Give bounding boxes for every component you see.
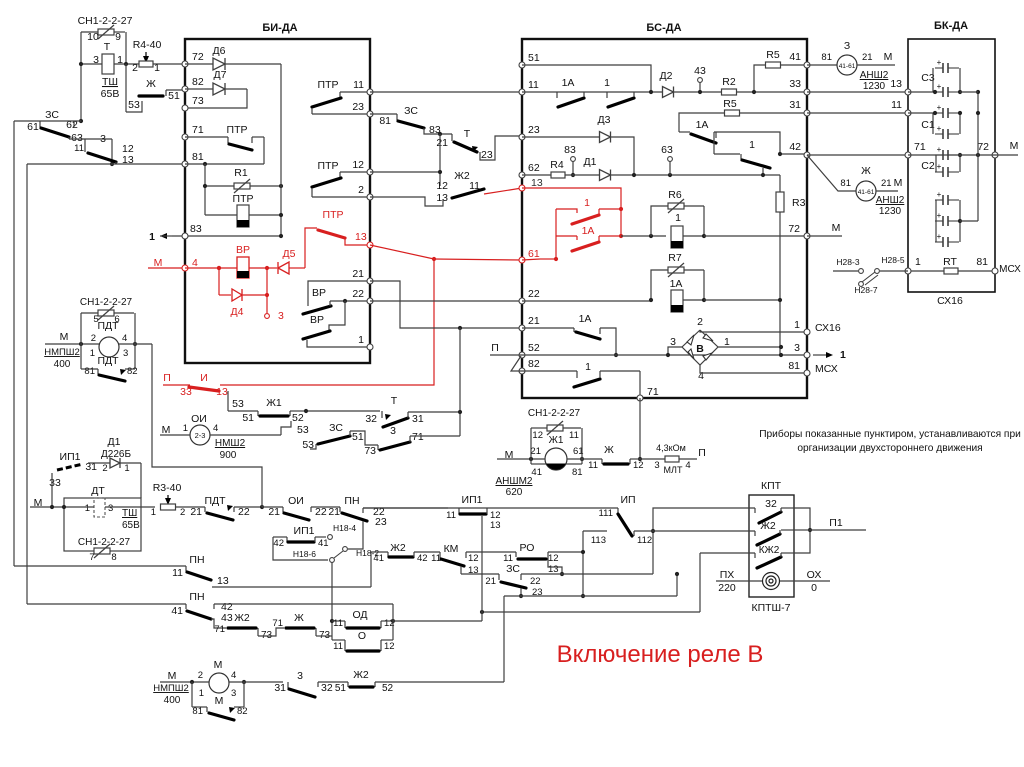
svg-text:12: 12 bbox=[532, 430, 543, 441]
terminal 2 bbox=[367, 194, 373, 200]
wire coil1 right rail bbox=[703, 206, 705, 236]
svg-text:М: М bbox=[214, 659, 223, 671]
svg-text:П: П bbox=[491, 342, 499, 354]
wire far-left vertical x15 bbox=[13, 121, 15, 566]
svg-text:51: 51 bbox=[242, 412, 254, 424]
lamp symbol KPTSh bbox=[763, 573, 780, 590]
svg-text:ИП1: ИП1 bbox=[294, 525, 315, 537]
arrow 1 right of 3 bbox=[813, 354, 826, 356]
svg-text:2: 2 bbox=[180, 507, 185, 518]
svg-text:П1: П1 bbox=[829, 517, 843, 529]
svg-text:М: М bbox=[215, 695, 224, 707]
wire 33 drop bbox=[51, 473, 53, 507]
svg-text:R3-40: R3-40 bbox=[153, 482, 182, 494]
svg-text:71: 71 bbox=[192, 124, 204, 136]
svg-text:82: 82 bbox=[192, 76, 204, 88]
svg-text:43: 43 bbox=[221, 612, 233, 624]
terminal 82 bbox=[182, 86, 188, 92]
svg-text:М: М bbox=[162, 424, 171, 436]
wire ZS 61 feed bbox=[14, 120, 81, 122]
svg-text:41: 41 bbox=[789, 51, 801, 63]
svg-text:62: 62 bbox=[528, 162, 540, 174]
terminal 41 bbox=[804, 62, 810, 68]
svg-text:1: 1 bbox=[794, 319, 800, 331]
wire 72 row right bbox=[704, 235, 807, 237]
svg-text:+: + bbox=[937, 232, 942, 241]
terminal 83 bbox=[182, 233, 188, 239]
svg-text:111: 111 bbox=[599, 508, 613, 519]
terminal 31 bbox=[804, 110, 810, 116]
svg-text:БИ-ДА: БИ-ДА bbox=[262, 22, 297, 34]
wire y612 KZh2 feed bbox=[393, 620, 482, 622]
node 63 stub bbox=[668, 157, 673, 162]
terminal 42 bbox=[804, 152, 810, 158]
wire IP1-42 drop bbox=[273, 537, 328, 560]
wire coil right rail bbox=[280, 64, 282, 236]
block BS-DA outline bbox=[522, 39, 807, 398]
svg-text:1: 1 bbox=[749, 139, 755, 151]
wire red junction down and left bbox=[220, 259, 434, 385]
terminal 33 bbox=[804, 89, 810, 95]
svg-text:1: 1 bbox=[675, 212, 681, 224]
arrow 1 left at 83 bbox=[160, 233, 167, 239]
wire 42 row bbox=[780, 153, 807, 155]
svg-text:Ж2: Ж2 bbox=[234, 612, 250, 624]
svg-text:2: 2 bbox=[358, 184, 364, 196]
svg-text:53: 53 bbox=[128, 99, 140, 111]
wire coil1A right rail bbox=[703, 270, 705, 300]
svg-text:организации двухстороннего дви: организации двухстороннего движения bbox=[797, 443, 982, 454]
svg-text:Д7: Д7 bbox=[214, 69, 227, 81]
svg-text:М: М bbox=[168, 670, 177, 682]
wire 81 row inside bbox=[185, 163, 264, 165]
svg-text:RT: RT bbox=[943, 256, 957, 268]
wire D1 drop to box bbox=[140, 463, 142, 498]
terminal 11 bk bbox=[905, 110, 911, 116]
wire Zh to x331 bbox=[316, 635, 332, 637]
wire 52 to riser bbox=[375, 681, 504, 683]
wire red 13 row inside bbox=[522, 188, 621, 236]
wire M row bottom bbox=[229, 681, 283, 683]
terminal 1 rt bbox=[905, 268, 911, 274]
svg-text:82: 82 bbox=[237, 706, 248, 717]
wire 71-72 row bbox=[908, 154, 995, 156]
svg-text:АНШ2: АНШ2 bbox=[876, 195, 905, 206]
svg-text:52: 52 bbox=[528, 342, 540, 354]
svg-text:73: 73 bbox=[192, 95, 204, 107]
svg-text:М: М bbox=[894, 177, 903, 189]
svg-text:1: 1 bbox=[604, 77, 610, 89]
svg-text:ВР: ВР bbox=[310, 314, 324, 326]
terminal 23 bbox=[367, 111, 373, 117]
svg-text:ПДТ: ПДТ bbox=[97, 320, 119, 332]
svg-text:4: 4 bbox=[231, 670, 236, 681]
wire red up to PTR contact bbox=[304, 240, 306, 268]
svg-text:Д5: Д5 bbox=[283, 248, 296, 260]
svg-text:Ж: Ж bbox=[294, 612, 304, 624]
wire far-left vertical x27 bbox=[26, 164, 28, 604]
svg-text:+: + bbox=[937, 124, 942, 133]
svg-text:ПТР: ПТР bbox=[318, 160, 339, 172]
svg-text:81: 81 bbox=[192, 706, 203, 717]
svg-text:51: 51 bbox=[352, 431, 364, 443]
svg-text:2: 2 bbox=[697, 316, 703, 328]
svg-text:61: 61 bbox=[528, 248, 540, 260]
svg-text:Н28-7: Н28-7 bbox=[854, 285, 877, 295]
wire 113 stub bbox=[583, 530, 607, 532]
wire 22 row to KPT riser bbox=[521, 573, 653, 575]
wire 72 to M bbox=[995, 154, 1018, 156]
svg-text:ИП1: ИП1 bbox=[462, 494, 483, 506]
svg-text:СХ16: СХ16 bbox=[815, 322, 841, 334]
svg-text:23: 23 bbox=[528, 124, 540, 136]
terminal 1 bbox=[367, 344, 373, 350]
wire 63 to 3 drop bbox=[111, 139, 113, 164]
svg-text:11: 11 bbox=[588, 460, 598, 471]
wire OD rail x393 bbox=[392, 604, 394, 640]
wire bridge top to CX16 bbox=[700, 330, 807, 332]
wire 81 row horizontal bbox=[27, 163, 185, 165]
svg-text:1А: 1А bbox=[562, 77, 575, 89]
svg-text:R5: R5 bbox=[766, 49, 780, 61]
svg-text:42: 42 bbox=[273, 538, 284, 549]
svg-text:82: 82 bbox=[127, 366, 138, 377]
svg-text:71: 71 bbox=[214, 624, 225, 635]
wire PN23 to H18-2 bbox=[348, 521, 363, 549]
relay NMPSh2 400 coil bbox=[99, 337, 119, 357]
svg-text:11: 11 bbox=[333, 618, 343, 629]
svg-text:Н28-5: Н28-5 bbox=[881, 255, 904, 265]
svg-text:НМПШ2: НМПШ2 bbox=[44, 347, 80, 358]
terminal 3 row bbox=[804, 352, 810, 358]
svg-text:ВР: ВР bbox=[312, 287, 326, 299]
terminal 22 bbox=[367, 298, 373, 304]
svg-text:65В: 65В bbox=[122, 520, 140, 531]
svg-text:Ж: Ж bbox=[604, 444, 614, 456]
wire KM13 row bbox=[461, 573, 499, 575]
svg-text:М: М bbox=[884, 51, 893, 63]
contact 11-12-13 below ZS bbox=[84, 139, 86, 152]
svg-text:11: 11 bbox=[74, 143, 84, 154]
svg-text:О: О bbox=[358, 630, 366, 642]
svg-text:13: 13 bbox=[490, 520, 501, 531]
svg-text:4: 4 bbox=[122, 333, 127, 344]
svg-text:ПН: ПН bbox=[344, 495, 359, 507]
wire Zh2 row to KPT bbox=[653, 530, 755, 532]
svg-text:R6: R6 bbox=[668, 189, 682, 201]
svg-text:R7: R7 bbox=[668, 252, 682, 264]
wire 42 to BK-DA 71 bbox=[807, 154, 908, 156]
svg-text:41: 41 bbox=[531, 467, 542, 478]
svg-text:4: 4 bbox=[685, 460, 690, 471]
svg-text:+: + bbox=[937, 82, 942, 91]
svg-text:П: П bbox=[698, 447, 706, 459]
svg-text:4: 4 bbox=[192, 257, 198, 269]
terminal 23 bs bbox=[519, 134, 525, 140]
terminal 13 red bbox=[367, 242, 373, 248]
svg-text:+: + bbox=[937, 190, 942, 199]
svg-text:22: 22 bbox=[528, 288, 540, 300]
svg-text:Ж2: Ж2 bbox=[454, 170, 470, 182]
svg-text:51: 51 bbox=[335, 683, 347, 694]
svg-text:72: 72 bbox=[192, 51, 204, 63]
terminal 61 red bbox=[519, 257, 525, 263]
svg-text:73: 73 bbox=[364, 445, 376, 457]
svg-text:ЗС: ЗС bbox=[329, 422, 343, 434]
svg-text:63: 63 bbox=[661, 144, 673, 156]
svg-text:1: 1 bbox=[149, 231, 155, 243]
svg-text:11: 11 bbox=[528, 79, 539, 91]
svg-text:21: 21 bbox=[528, 315, 540, 327]
svg-text:8: 8 bbox=[111, 552, 116, 563]
wire red rail to 61 bbox=[540, 258, 556, 260]
svg-text:ПТР: ПТР bbox=[227, 124, 248, 136]
svg-text:Ж1: Ж1 bbox=[549, 435, 564, 446]
svg-text:220: 220 bbox=[718, 582, 736, 594]
svg-text:АНШМ2: АНШМ2 bbox=[496, 476, 533, 487]
svg-text:R1: R1 bbox=[234, 167, 248, 179]
svg-text:1: 1 bbox=[840, 349, 846, 361]
svg-text:81: 81 bbox=[84, 366, 95, 377]
wire P jumper to 82 bbox=[511, 356, 522, 371]
terminal 72 bs bbox=[804, 233, 810, 239]
svg-text:ОД: ОД bbox=[352, 609, 367, 621]
terminal 71 bottom bbox=[637, 395, 643, 401]
svg-text:1: 1 bbox=[85, 503, 90, 514]
svg-text:900: 900 bbox=[220, 450, 237, 461]
svg-text:3: 3 bbox=[231, 688, 236, 699]
svg-text:R4: R4 bbox=[550, 159, 564, 171]
svg-text:12: 12 bbox=[436, 180, 448, 192]
svg-text:ПТР: ПТР bbox=[318, 79, 339, 91]
svg-text:КМ: КМ bbox=[444, 543, 459, 555]
svg-text:Ж1: Ж1 bbox=[266, 397, 282, 409]
wire 21 jog between boxes bbox=[370, 281, 522, 328]
svg-text:33: 33 bbox=[789, 78, 801, 90]
svg-text:41: 41 bbox=[318, 538, 329, 549]
wire 62 row continues bbox=[611, 174, 780, 176]
svg-text:+: + bbox=[937, 211, 942, 220]
svg-text:КЖ2: КЖ2 bbox=[759, 545, 780, 556]
svg-text:21: 21 bbox=[862, 52, 873, 63]
terminal 12 bbox=[367, 169, 373, 175]
wire 71 drop to MLT row bbox=[639, 398, 641, 459]
svg-text:ПДТ: ПДТ bbox=[204, 495, 226, 507]
svg-text:72: 72 bbox=[788, 223, 800, 235]
svg-text:ПН: ПН bbox=[189, 554, 204, 566]
terminal 1 cx16 bbox=[804, 329, 810, 335]
svg-text:31: 31 bbox=[412, 413, 424, 425]
svg-text:81: 81 bbox=[840, 178, 851, 189]
node 53 under Zh1 bbox=[281, 421, 291, 435]
wire red 13 to 53 drop bbox=[227, 391, 229, 411]
svg-text:83: 83 bbox=[564, 144, 576, 156]
svg-text:13: 13 bbox=[890, 78, 902, 90]
svg-text:9: 9 bbox=[115, 31, 121, 43]
contact PDT row bbox=[176, 506, 205, 508]
svg-text:21: 21 bbox=[190, 506, 202, 518]
svg-text:22: 22 bbox=[352, 288, 364, 300]
svg-text:Д6: Д6 bbox=[213, 45, 226, 57]
svg-text:БК-ДА: БК-ДА bbox=[934, 20, 968, 32]
svg-text:ПХ: ПХ bbox=[720, 569, 735, 581]
svg-text:R4-40: R4-40 bbox=[133, 39, 162, 51]
svg-text:4,3кОм: 4,3кОм bbox=[656, 443, 686, 453]
svg-text:Включение реле В: Включение реле В bbox=[557, 641, 764, 668]
wire M red bbox=[148, 267, 185, 269]
wire y596 riser to Zh2-52 bbox=[503, 596, 505, 682]
wire y596 row bbox=[504, 595, 677, 597]
svg-text:1: 1 bbox=[199, 688, 204, 699]
terminal 73 bbox=[182, 105, 188, 111]
svg-text:Ж: Ж bbox=[146, 78, 156, 90]
svg-text:21: 21 bbox=[352, 268, 364, 280]
wire 22 row bbox=[330, 300, 370, 302]
svg-text:11: 11 bbox=[446, 510, 456, 521]
svg-text:М: М bbox=[154, 257, 163, 269]
svg-text:+: + bbox=[937, 58, 942, 67]
svg-text:52: 52 bbox=[292, 412, 304, 424]
wire T drop to 12 row bbox=[439, 134, 441, 186]
svg-text:1: 1 bbox=[183, 423, 188, 434]
svg-text:71: 71 bbox=[647, 386, 659, 398]
svg-text:1А: 1А bbox=[670, 278, 683, 290]
block BK-DA outline bbox=[908, 39, 995, 292]
wire red junction to 61 bbox=[434, 259, 522, 260]
svg-text:М: М bbox=[1010, 140, 1019, 152]
wire P to 52 bbox=[490, 354, 522, 356]
terminal 72 bk bbox=[992, 152, 998, 158]
wire 12 row bbox=[370, 171, 440, 173]
block BI-DA outline bbox=[185, 39, 370, 363]
svg-text:3: 3 bbox=[794, 342, 800, 354]
svg-text:1: 1 bbox=[124, 463, 129, 474]
capacitor lower group bbox=[935, 199, 943, 201]
svg-text:Н18-4: Н18-4 bbox=[333, 523, 356, 533]
svg-text:ТШ: ТШ bbox=[122, 508, 137, 519]
wire 33 to 13 bbox=[807, 91, 908, 93]
svg-text:1А: 1А bbox=[579, 313, 592, 325]
svg-text:Д226Б: Д226Б bbox=[101, 449, 131, 460]
svg-text:1: 1 bbox=[90, 348, 95, 359]
wire red diagonal to 13 terminal bbox=[484, 188, 522, 194]
svg-text:ЗС: ЗС bbox=[45, 109, 59, 121]
svg-text:1230: 1230 bbox=[879, 206, 902, 217]
terminal 22 bs bbox=[519, 298, 525, 304]
wire y596 riser to 574 bbox=[676, 574, 678, 596]
svg-text:71: 71 bbox=[914, 141, 926, 153]
svg-text:1: 1 bbox=[584, 197, 590, 209]
svg-text:Д3: Д3 bbox=[598, 114, 611, 126]
svg-text:СН1-2-2-27: СН1-2-2-27 bbox=[78, 15, 133, 27]
svg-text:12: 12 bbox=[633, 460, 644, 471]
svg-text:Д1: Д1 bbox=[108, 436, 121, 448]
wire 22 row between boxes bbox=[370, 300, 522, 302]
svg-text:41: 41 bbox=[171, 605, 183, 617]
svg-text:7: 7 bbox=[89, 552, 94, 563]
svg-text:И: И bbox=[200, 372, 208, 384]
wire 72 row bbox=[621, 235, 666, 237]
wire bridge right bbox=[718, 346, 781, 348]
contact H18 jumpers bbox=[343, 547, 348, 552]
svg-text:М: М bbox=[60, 331, 69, 343]
svg-text:0: 0 bbox=[811, 582, 817, 594]
svg-text:П: П bbox=[163, 372, 171, 384]
svg-text:13: 13 bbox=[531, 177, 543, 189]
block KPT outline bbox=[749, 495, 794, 597]
svg-text:620: 620 bbox=[506, 487, 523, 498]
relay Z ANSh2 1230 bbox=[807, 64, 837, 66]
svg-text:72: 72 bbox=[977, 141, 989, 153]
svg-text:22: 22 bbox=[315, 506, 327, 518]
svg-text:22: 22 bbox=[530, 576, 541, 587]
svg-text:ПН: ПН bbox=[189, 591, 204, 603]
svg-text:21: 21 bbox=[328, 506, 340, 518]
svg-text:31: 31 bbox=[274, 682, 286, 694]
wire riser x653 to KPT bbox=[653, 508, 755, 574]
svg-text:АНШ2: АНШ2 bbox=[860, 70, 889, 81]
svg-text:В: В bbox=[696, 343, 704, 355]
terminal 72 bbox=[182, 61, 188, 67]
wire 51 jog bbox=[522, 65, 651, 92]
terminal 71 bbox=[182, 134, 188, 140]
svg-text:11: 11 bbox=[569, 430, 579, 441]
diode D4 red branch bbox=[218, 268, 220, 295]
wire KPT common right bbox=[781, 507, 794, 509]
svg-text:33: 33 bbox=[49, 477, 61, 489]
svg-text:32: 32 bbox=[321, 682, 333, 694]
svg-text:З: З bbox=[844, 40, 850, 52]
wire 11 row to BS-DA bbox=[370, 91, 522, 93]
svg-text:43: 43 bbox=[694, 65, 706, 77]
wire red to VR coil bbox=[185, 267, 237, 269]
svg-text:71: 71 bbox=[412, 431, 424, 443]
svg-text:ЗС: ЗС bbox=[506, 563, 520, 575]
svg-text:НМШ2: НМШ2 bbox=[215, 438, 246, 449]
svg-text:71: 71 bbox=[272, 618, 283, 629]
svg-text:53: 53 bbox=[297, 424, 309, 436]
svg-text:3: 3 bbox=[654, 460, 659, 471]
svg-text:81: 81 bbox=[572, 467, 583, 478]
node 3 red stub bbox=[266, 295, 268, 313]
terminal 13 bs red bbox=[519, 185, 525, 191]
svg-text:СН1-2-2-27: СН1-2-2-27 bbox=[78, 537, 131, 548]
svg-text:ТШ: ТШ bbox=[102, 76, 118, 88]
svg-text:12: 12 bbox=[548, 553, 559, 564]
terminal 11 bs bbox=[519, 89, 525, 95]
terminal 81 rt bbox=[992, 268, 998, 274]
svg-text:ПТР: ПТР bbox=[323, 209, 344, 221]
svg-text:НМПШ2: НМПШ2 bbox=[153, 683, 189, 694]
svg-text:13: 13 bbox=[436, 192, 448, 204]
svg-text:81: 81 bbox=[976, 256, 988, 268]
svg-text:РО: РО bbox=[520, 542, 535, 554]
wire 52 row inside bbox=[522, 354, 807, 356]
svg-text:1: 1 bbox=[724, 336, 730, 348]
svg-text:61: 61 bbox=[27, 121, 39, 133]
wire D7 loop to 73 bbox=[185, 89, 247, 108]
wire OI to 53 riser bbox=[210, 434, 281, 436]
terminal 11 bbox=[367, 89, 373, 95]
terminal 21 bbox=[367, 278, 373, 284]
svg-text:СН1-2-2-27: СН1-2-2-27 bbox=[80, 297, 133, 308]
wire 31 to 11 bbox=[807, 112, 908, 114]
svg-text:М: М bbox=[832, 222, 841, 234]
wire 13row up to Zh2-41 bbox=[370, 557, 372, 587]
wire R4-40 to 72 bbox=[153, 63, 185, 65]
svg-text:4: 4 bbox=[213, 423, 218, 434]
svg-text:R3: R3 bbox=[792, 197, 806, 209]
